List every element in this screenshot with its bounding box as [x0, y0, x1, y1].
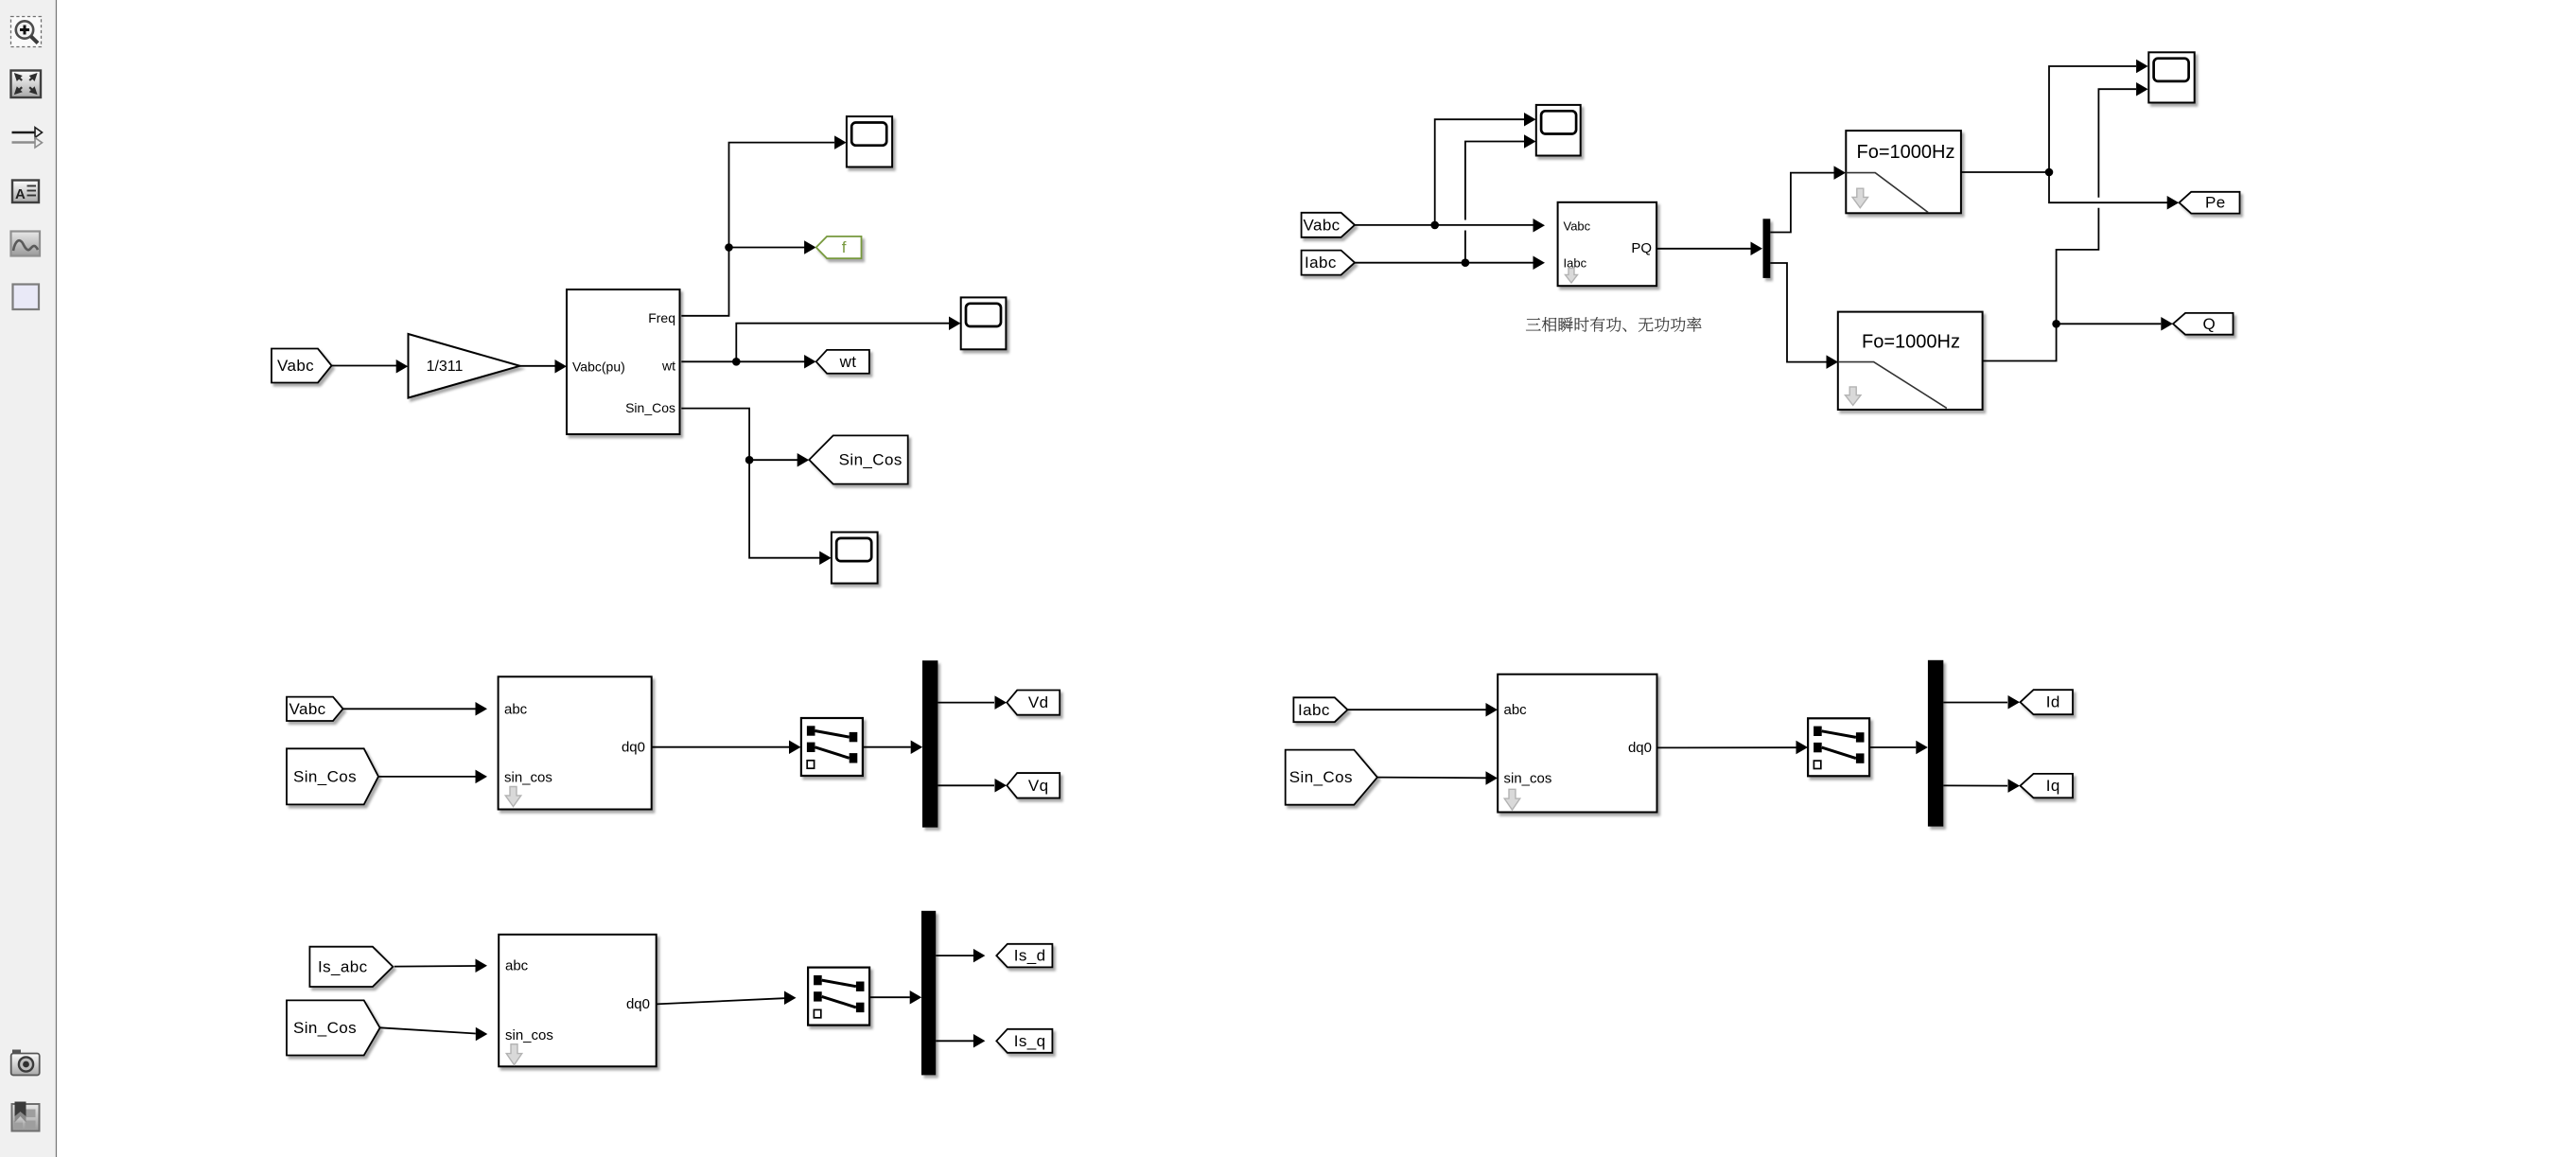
svg-text:Iabc: Iabc — [1564, 256, 1587, 271]
svg-text:Iq: Iq — [2046, 777, 2060, 795]
svg-text:abc: abc — [1504, 702, 1528, 718]
svg-text:Sin_Cos: Sin_Cos — [293, 1019, 357, 1037]
svg-text:Freq: Freq — [648, 310, 675, 325]
svg-text:wt: wt — [661, 359, 675, 374]
svg-text:Vabc: Vabc — [289, 700, 326, 718]
svg-text:Q: Q — [2202, 315, 2216, 333]
svg-text:dq0: dq0 — [1628, 740, 1652, 756]
svg-text:Sin_Cos: Sin_Cos — [625, 400, 675, 415]
svg-text:abc: abc — [504, 702, 528, 718]
svg-text:PQ: PQ — [1631, 240, 1652, 256]
svg-text:Is_abc: Is_abc — [318, 957, 368, 975]
svg-text:Id: Id — [2046, 693, 2060, 711]
svg-text:Vd: Vd — [1028, 693, 1049, 711]
svg-text:dq0: dq0 — [622, 740, 645, 756]
svg-text:Is_q: Is_q — [1014, 1032, 1046, 1050]
svg-text:dq0: dq0 — [626, 996, 650, 1012]
svg-text:Sin_Cos: Sin_Cos — [293, 767, 357, 785]
svg-text:Vabc: Vabc — [277, 357, 314, 375]
svg-text:A: A — [15, 186, 26, 202]
svg-text:sin_cos: sin_cos — [505, 1027, 553, 1043]
svg-text:Iabc: Iabc — [1298, 701, 1330, 719]
svg-text:abc: abc — [505, 958, 529, 974]
svg-text:wt: wt — [839, 353, 857, 371]
svg-text:Iabc: Iabc — [1305, 254, 1337, 272]
svg-text:f: f — [842, 238, 847, 256]
svg-text:Vq: Vq — [1028, 777, 1049, 795]
svg-text:Is_d: Is_d — [1014, 947, 1046, 965]
svg-text:Sin_Cos: Sin_Cos — [839, 451, 902, 469]
svg-text:Fo=1000Hz: Fo=1000Hz — [1857, 142, 1955, 163]
svg-text:Pe: Pe — [2205, 194, 2226, 212]
svg-text:Vabc: Vabc — [1564, 219, 1591, 234]
svg-text:Sin_Cos: Sin_Cos — [1289, 768, 1353, 786]
svg-text:1/311: 1/311 — [427, 359, 464, 375]
svg-text:Fo=1000Hz: Fo=1000Hz — [1862, 332, 1960, 353]
svg-text:sin_cos: sin_cos — [1504, 771, 1552, 787]
svg-text:Vabc(pu): Vabc(pu) — [572, 359, 625, 375]
svg-text:Vabc: Vabc — [1304, 216, 1341, 234]
svg-text:sin_cos: sin_cos — [504, 770, 552, 786]
